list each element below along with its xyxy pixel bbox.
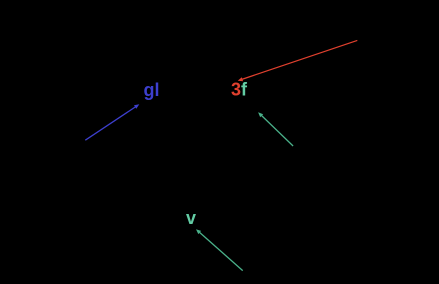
blue arrow: [85, 104, 139, 140]
svg-text:v: v: [186, 208, 196, 228]
green arrow upper: [258, 112, 293, 146]
svg-text:3f: 3f: [231, 80, 248, 100]
red arrow: [238, 40, 358, 81]
svg-text:gl: gl: [144, 80, 160, 100]
green arrow lower: [196, 229, 243, 270]
